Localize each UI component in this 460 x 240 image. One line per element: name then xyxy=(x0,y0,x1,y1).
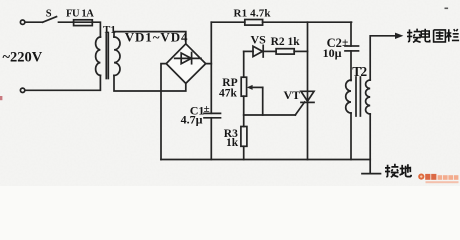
svg-text:10µ: 10µ xyxy=(323,46,342,60)
wire T1 secondary bottom to bridge AC bottom xyxy=(114,75,186,91)
svg-text:FU 1A: FU 1A xyxy=(66,8,94,19)
svg-text:VD1~VD4: VD1~VD4 xyxy=(125,30,188,45)
watermark logo xyxy=(418,174,458,184)
wire RP bottom to R3 top xyxy=(243,96,245,126)
svg-text:47k: 47k xyxy=(219,87,238,99)
wire top rail right xyxy=(263,21,352,23)
svg-text:~220V: ~220V xyxy=(3,50,43,66)
ground rail xyxy=(161,159,370,161)
svg-text:±: ± xyxy=(342,37,348,49)
bridge rectifier VD1~VD4 xyxy=(125,30,206,84)
svg-text:R2 1k: R2 1k xyxy=(271,36,301,48)
capacitor C1 4.7u xyxy=(181,103,221,159)
wire T2 primary bottom to ground rail xyxy=(350,113,352,160)
wire fuse to T1 primary xyxy=(93,22,101,37)
wire T2 secondary top to fence output xyxy=(370,36,396,80)
capacitor C2 10u xyxy=(323,22,359,80)
potentiometer RP 47k xyxy=(219,77,263,115)
fuse FU 1A xyxy=(66,8,94,25)
wire switch to fuse xyxy=(59,21,74,23)
scan speck xyxy=(445,8,449,10)
svg-text:S: S xyxy=(46,8,52,19)
wire bottom terminal to T1 primary xyxy=(25,75,100,90)
label fence (Chinese) xyxy=(407,29,459,43)
wire VT cathode to ground rail xyxy=(307,102,309,159)
wire T2 secondary bottom to ground xyxy=(369,114,371,172)
scan streak left edge xyxy=(0,96,2,100)
svg-text:1k: 1k xyxy=(226,137,239,149)
terminal top-left xyxy=(20,20,24,24)
wire VT anode from top rail xyxy=(307,22,309,101)
wire gate line xyxy=(244,114,296,116)
wire T1 secondary top to bridge AC top xyxy=(114,32,186,44)
resistor R2 1k xyxy=(271,36,308,54)
svg-text:R1 4.7k: R1 4.7k xyxy=(234,7,272,19)
transformer T2 xyxy=(346,64,371,116)
wire VS anode to RP top xyxy=(243,51,245,77)
ground symbol xyxy=(362,173,381,175)
svg-text:VT: VT xyxy=(284,88,301,102)
resistor R1 4.7k xyxy=(234,7,272,25)
resistor R3 1k xyxy=(224,127,247,160)
switch S xyxy=(43,8,57,22)
wire terminal to switch xyxy=(25,21,43,23)
wire bridge positive to top rail xyxy=(206,22,212,63)
label ground (Chinese) xyxy=(385,164,411,177)
svg-text:VS: VS xyxy=(251,32,267,46)
thyristor VT xyxy=(284,88,315,115)
arrow fence output xyxy=(395,33,403,39)
wire top rail left xyxy=(211,21,245,23)
svg-text:4.7µ: 4.7µ xyxy=(181,113,203,127)
diode VS xyxy=(244,32,276,57)
transformer T1 xyxy=(96,24,120,79)
terminal bottom-left xyxy=(20,88,24,92)
wire bridge negative to ground rail xyxy=(161,64,166,160)
wire bridge positive to C1 xyxy=(210,64,212,114)
